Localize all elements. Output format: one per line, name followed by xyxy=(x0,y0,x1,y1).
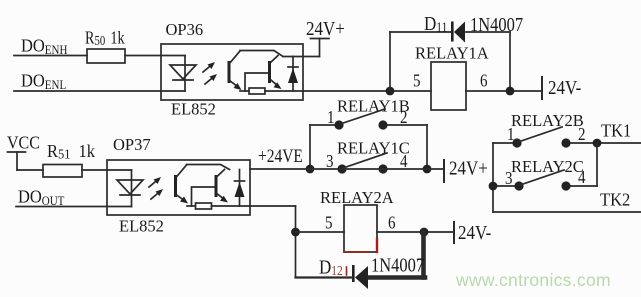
contact pin1 label relay2B xyxy=(507,124,514,145)
label D11 xyxy=(424,13,447,36)
wire DO_ENH xyxy=(14,55,87,57)
label RELAY1A xyxy=(415,44,489,63)
wire D12 left xyxy=(296,276,353,278)
light arrows OP37 xyxy=(149,177,163,199)
contact pin2 label relay2B xyxy=(578,124,585,145)
node junction relay2A left xyxy=(291,228,300,237)
pin 5 RELAY1A xyxy=(413,70,420,91)
wire to relay2A pin5 xyxy=(296,231,345,233)
wire DO_ENL xyxy=(14,90,185,92)
svg-text:2: 2 xyxy=(578,124,585,145)
wire up left D11 xyxy=(389,32,391,91)
resistor R51 xyxy=(43,165,82,178)
svg-text:RELAY2A: RELAY2A xyxy=(320,188,394,207)
switch lever RELAY1B xyxy=(340,109,385,124)
contact pin4 label relay2C xyxy=(578,167,586,188)
diode D11 xyxy=(451,22,465,43)
node junction relay2A right xyxy=(420,228,429,237)
opto OP37 label xyxy=(113,135,151,154)
transistor Q1b of OP36 xyxy=(268,56,282,90)
contact pin4 label xyxy=(400,151,408,172)
wire R51 to opto2 xyxy=(82,169,132,171)
label R51 1k xyxy=(47,141,95,161)
wire DO_OUT xyxy=(16,206,132,208)
svg-text:RELAY1A: RELAY1A xyxy=(415,44,489,63)
contact pin1 label xyxy=(327,107,334,128)
terminal bar 24V+ mid xyxy=(443,160,445,182)
wire contact line 3-4 to 24V+ xyxy=(250,168,444,170)
opto OP36 label xyxy=(166,20,204,39)
pin 6 RELAY2A xyxy=(388,212,395,233)
terminal bar 24V- bottom xyxy=(453,222,455,243)
svg-text:5: 5 xyxy=(413,70,420,91)
svg-text:RELAY1C: RELAY1C xyxy=(337,139,410,158)
label 24V+ mid xyxy=(449,157,488,178)
top rail OP36 xyxy=(240,51,283,57)
svg-text:24V-: 24V- xyxy=(548,77,581,98)
svg-text:RELAY2C: RELAY2C xyxy=(511,157,584,176)
transistor Q2a of OP37 xyxy=(174,165,188,204)
svg-text:6: 6 xyxy=(388,212,395,233)
LED of OP36 xyxy=(170,56,196,92)
contact pin3 label xyxy=(326,151,333,172)
wire right vertical relay1 contacts xyxy=(426,125,428,169)
node junction relay2 left xyxy=(489,182,498,191)
svg-text:24V-: 24V- xyxy=(458,222,491,243)
label 1N4007 bottom xyxy=(371,254,424,276)
contact pin2 label xyxy=(400,107,407,128)
svg-text:EL852: EL852 xyxy=(119,217,164,236)
relay coil RELAY2A xyxy=(344,205,377,252)
svg-text:TK1: TK1 xyxy=(601,121,631,141)
label RELAY1B xyxy=(337,97,410,116)
wire left vertical relay2 contacts xyxy=(492,143,494,212)
label TK1 xyxy=(601,121,631,141)
diode D12 xyxy=(352,265,368,289)
label R50 1k xyxy=(85,29,125,48)
svg-text:DOENH: DOENH xyxy=(21,36,67,57)
base network OP36 xyxy=(245,73,268,91)
node junction dot A xyxy=(386,87,395,96)
label 24V- top xyxy=(548,77,581,98)
wire contact line relay2B xyxy=(493,142,517,144)
svg-text:D11: D11 xyxy=(424,13,447,36)
label 24V- bottom xyxy=(458,222,491,243)
switch lever RELAY2C xyxy=(520,170,564,185)
contact dot 3 xyxy=(337,164,346,173)
wire right vertical relay2 contacts xyxy=(596,143,598,186)
svg-text:RELAY2B: RELAY2B xyxy=(511,111,584,130)
wire thick down D12 xyxy=(421,232,426,278)
node DO_OUT label xyxy=(18,187,64,208)
wire down right D11 xyxy=(509,32,511,91)
red mark coil bottom xyxy=(344,251,369,253)
red mark D12 tick xyxy=(346,267,348,275)
label RELAY2C xyxy=(511,157,584,176)
resistor internal OP37 xyxy=(196,203,212,209)
label 24V+ top xyxy=(306,18,345,39)
wire down to relay2A xyxy=(295,206,297,278)
svg-text:TK2: TK2 xyxy=(600,190,630,210)
wire collector out OP36 xyxy=(283,56,320,58)
contact dot 2 relay2B xyxy=(561,138,570,147)
transistor Q1a of OP36 xyxy=(228,51,242,90)
svg-text:24V+: 24V+ xyxy=(449,157,488,178)
red mark coil right xyxy=(376,239,378,252)
wire relay1A to 24V- xyxy=(466,90,542,92)
wire relay2A pin6 xyxy=(377,231,454,233)
wire R50 to opto xyxy=(125,55,185,57)
svg-text:OP37: OP37 xyxy=(113,135,151,154)
wire left vertical relay1 contacts xyxy=(309,125,311,169)
node VCC label xyxy=(7,132,40,152)
diode internal OP37 xyxy=(235,170,245,207)
terminal bar 24V- top xyxy=(541,77,543,99)
wire emitter rail OP37 xyxy=(187,205,196,207)
svg-text:www.cntronics.com: www.cntronics.com xyxy=(455,270,611,290)
wire top D11 left xyxy=(390,31,452,33)
wire thick bottom D12 xyxy=(368,275,425,280)
LED of OP37 xyxy=(117,170,143,207)
contact dot 4 xyxy=(378,164,387,173)
svg-text:EL852: EL852 xyxy=(171,100,216,119)
transistor Q2b of OP37 xyxy=(215,170,229,203)
wire emitter rail OP36 xyxy=(240,90,249,92)
wire contact line 1-2 xyxy=(310,124,339,126)
svg-text:VCC: VCC xyxy=(7,132,40,152)
resistor internal OP36 xyxy=(249,88,265,94)
label RELAY2A xyxy=(320,188,394,207)
wire contact line relay2C xyxy=(493,185,519,187)
wire top D11 right xyxy=(466,31,510,33)
pin 5 RELAY2A xyxy=(325,212,332,233)
label EL852 (OP36) xyxy=(171,100,216,119)
wire OP36 output to relay1A xyxy=(303,90,431,92)
wire TK2 xyxy=(493,211,641,213)
wire VCC to R51 xyxy=(17,169,43,171)
svg-text:24V+: 24V+ xyxy=(306,18,345,39)
svg-text:6: 6 xyxy=(480,70,487,91)
relay coil RELAY1A xyxy=(431,62,466,110)
watermark xyxy=(455,270,611,290)
pin 6 RELAY1A xyxy=(480,70,487,91)
label TK2 xyxy=(600,190,630,210)
opto OP37 body box xyxy=(107,160,250,215)
svg-text:1N4007: 1N4007 xyxy=(371,254,424,276)
contact dot 4 relay2C xyxy=(561,181,570,190)
label D12 xyxy=(319,256,343,279)
node junction right contacts xyxy=(423,165,432,174)
power 24V+ top terminal xyxy=(311,39,330,57)
label +24VE xyxy=(258,146,303,167)
label RELAY2B xyxy=(511,111,584,130)
contact dot 1 xyxy=(334,120,343,129)
svg-text:OP36: OP36 xyxy=(166,20,204,39)
svg-text:R511k: R511k xyxy=(47,141,95,161)
resistor R50 xyxy=(87,49,125,63)
contact pin3 label relay2C xyxy=(505,168,512,189)
contact dot 1 relay2B xyxy=(512,138,521,147)
svg-text:4: 4 xyxy=(578,167,586,188)
wire OP37 output to relay2A xyxy=(250,205,296,207)
svg-text:DOOUT: DOOUT xyxy=(18,187,64,208)
node DO_ENH label xyxy=(21,36,67,57)
node junction TK1 xyxy=(593,139,602,148)
label 1N4007 top xyxy=(470,14,523,36)
svg-text:5: 5 xyxy=(325,212,332,233)
contact dot 3 relay2C xyxy=(514,181,523,190)
top rail OP37 xyxy=(187,165,230,170)
contact dot 2 xyxy=(378,120,387,129)
label RELAY1C xyxy=(337,139,410,158)
node junction +24VE xyxy=(306,165,315,174)
base network OP37 xyxy=(192,187,215,206)
svg-text:+24VE: +24VE xyxy=(258,146,303,167)
svg-text:D12: D12 xyxy=(319,256,343,279)
diode internal OP36 xyxy=(288,57,298,92)
node DO_ENL label xyxy=(21,71,66,92)
svg-text:R501k: R501k xyxy=(85,29,125,48)
node junction dot B xyxy=(506,87,515,96)
opto OP36 body box xyxy=(161,44,303,100)
light arrows OP36 xyxy=(203,62,217,84)
power VCC terminal xyxy=(8,152,26,170)
switch lever RELAY1C xyxy=(343,153,387,168)
switch lever RELAY2B xyxy=(518,127,562,142)
label EL852 (OP37) xyxy=(119,217,164,236)
svg-text:DOENL: DOENL xyxy=(21,71,66,92)
